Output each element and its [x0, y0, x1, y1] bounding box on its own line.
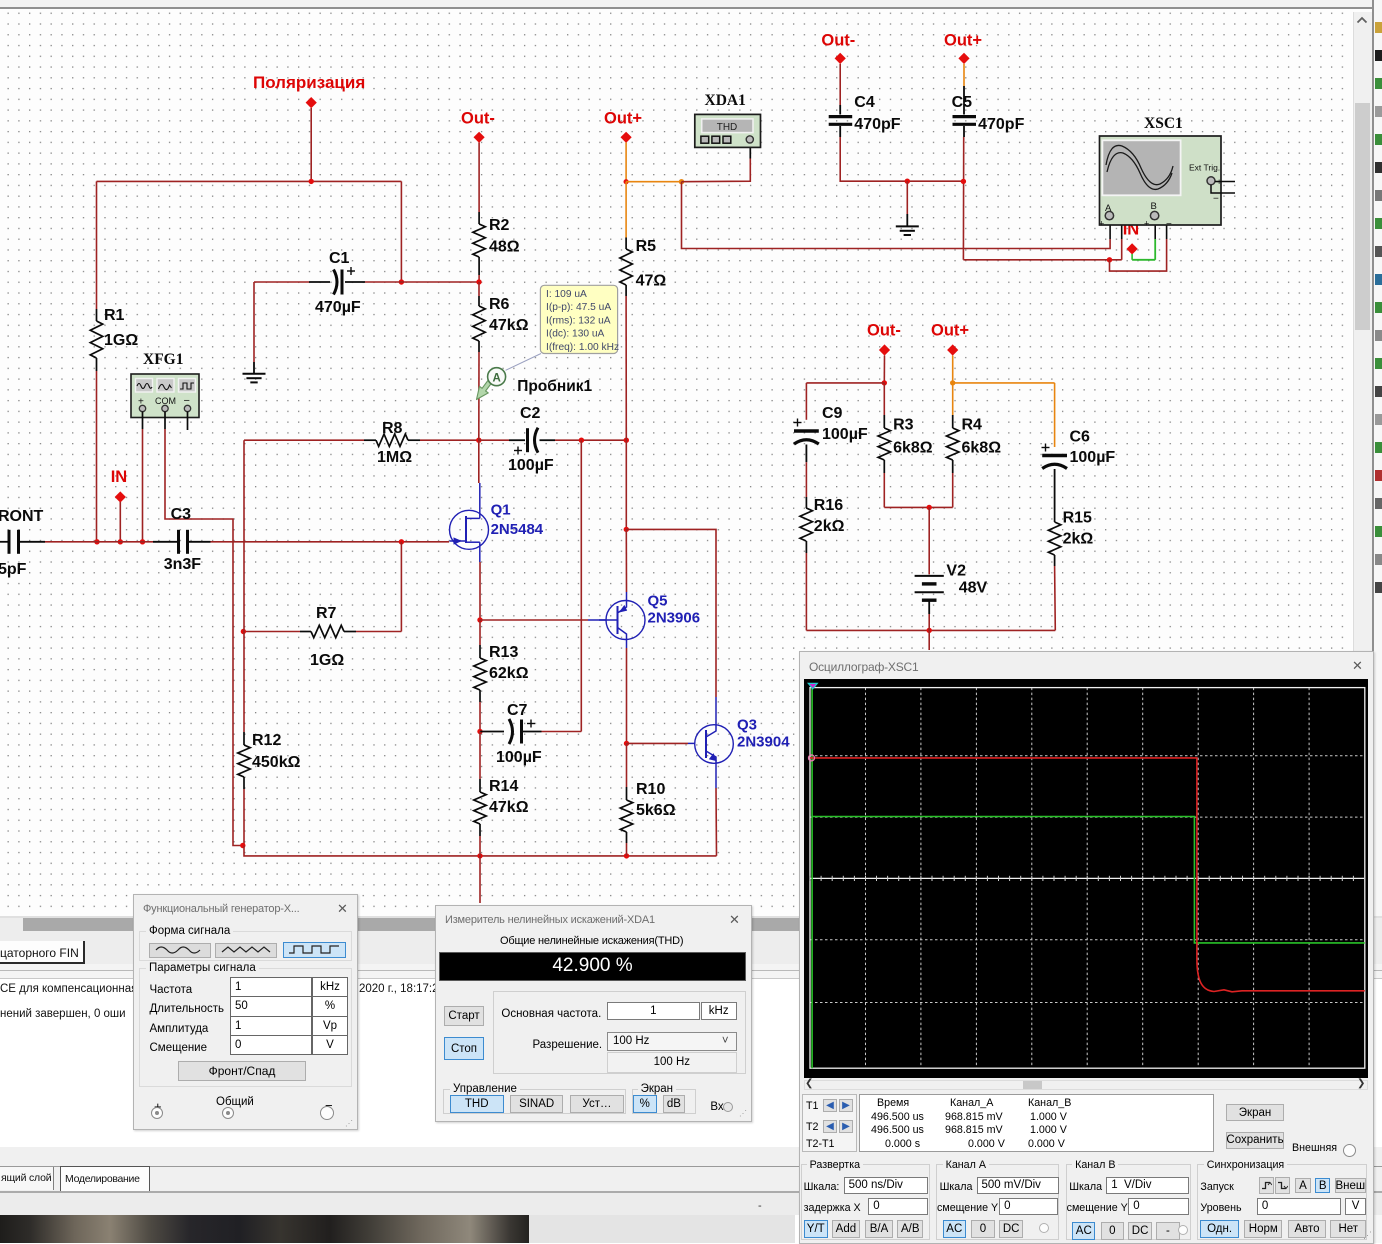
svg-text:470pF: 470pF	[978, 116, 1024, 133]
right icon strip	[1372, 0, 1374, 1243]
svg-text:2N5484: 2N5484	[491, 521, 544, 538]
wire scope B plus green	[1131, 254, 1133, 260]
svg-text:Q5: Q5	[648, 593, 668, 610]
junction	[118, 539, 123, 544]
wire	[310, 108, 312, 181]
transistor Q1	[450, 510, 489, 549]
junction	[140, 539, 145, 544]
junction	[477, 729, 482, 734]
svg-text:5k6Ω: 5k6Ω	[636, 802, 676, 819]
svg-text:R1: R1	[104, 307, 125, 324]
svg-text:2kΩ: 2kΩ	[1063, 531, 1094, 548]
wire	[928, 614, 930, 630]
junction	[961, 179, 966, 184]
svg-text:R12: R12	[252, 732, 281, 749]
capacitor C4	[839, 64, 841, 105]
svg-text:B: B	[1151, 201, 1157, 212]
svg-text:R4: R4	[962, 417, 983, 434]
junction	[927, 628, 932, 633]
wire	[625, 529, 627, 592]
svg-text:R7: R7	[316, 605, 337, 622]
connector diamond IN	[115, 491, 126, 502]
connector diamond IN scope	[1127, 243, 1138, 254]
svg-text:C2: C2	[520, 405, 541, 422]
svg-text:C1: C1	[329, 250, 350, 267]
probe tooltip	[506, 354, 541, 371]
resistor R7	[241, 629, 246, 634]
svg-text:+: +	[1144, 219, 1149, 229]
Синхронизация group	[1197, 1164, 1367, 1240]
connector diamond Out- top	[835, 53, 846, 64]
wire to Q3 collector	[626, 529, 716, 697]
resistor R6	[478, 282, 480, 296]
svg-text:R2: R2	[489, 217, 510, 234]
svg-text:Out+: Out+	[931, 322, 969, 340]
connector diamond Out+ mid	[621, 132, 632, 143]
wire Q1 source	[479, 549, 481, 562]
svg-text:I(freq): 1.00 kHz: I(freq): 1.00 kHz	[546, 342, 619, 353]
svg-text:R8: R8	[382, 420, 403, 437]
junction	[624, 438, 629, 443]
svg-text:I(rms): 132 uA: I(rms): 132 uA	[546, 315, 611, 326]
wire	[883, 356, 885, 383]
battery V2	[915, 575, 944, 577]
wire R3 R4 join	[884, 506, 952, 508]
svg-text:Out+: Out+	[604, 110, 642, 128]
svg-text:Поляризация: Поляризация	[253, 73, 365, 92]
resistor R10	[626, 743, 628, 787]
svg-text:C7: C7	[507, 702, 528, 719]
svg-text:470pF: 470pF	[854, 116, 900, 133]
svg-text:COM: COM	[155, 396, 176, 406]
svg-text:XDA1: XDA1	[705, 92, 746, 109]
resistor R8	[364, 439, 376, 441]
wire main line to Q1 gate	[211, 541, 450, 543]
svg-text:1GΩ: 1GΩ	[310, 652, 344, 669]
wire bottom rail	[244, 846, 717, 856]
svg-text:1GΩ: 1GΩ	[104, 332, 138, 349]
resistor R14	[479, 732, 481, 780]
resistor R4	[952, 383, 954, 415]
resistor R16	[805, 497, 807, 508]
spreadsheet view panel	[0, 916, 1382, 1147]
wire to window	[479, 856, 481, 903]
svg-text:C3: C3	[171, 506, 192, 523]
wire	[97, 180, 402, 182]
capacitor C7	[480, 731, 504, 733]
wire orange	[625, 143, 627, 182]
connector diamond Out- mid	[474, 132, 485, 143]
connector diamond Поляризация	[306, 97, 317, 108]
svg-text:47Ω: 47Ω	[636, 273, 667, 290]
svg-text:2N3904: 2N3904	[737, 734, 790, 751]
svg-text:6k8Ω: 6k8Ω	[893, 440, 933, 457]
junction	[624, 853, 629, 858]
resistor R2	[478, 143, 480, 213]
wire Q5 base	[480, 619, 588, 621]
green trace channel B	[812, 688, 1365, 1069]
svg-text:R16: R16	[814, 497, 843, 514]
ground right	[896, 225, 919, 227]
svg-text:2N3906: 2N3906	[648, 610, 701, 627]
wire	[400, 181, 402, 282]
junction	[309, 179, 314, 184]
resistor R1	[96, 181, 98, 309]
wire	[806, 382, 884, 384]
current probe Пробник1	[477, 375, 496, 400]
wire	[253, 362, 255, 374]
wire scope B minus	[1110, 239, 1167, 271]
Канал A group	[936, 1164, 1059, 1240]
svg-text:48Ω: 48Ω	[489, 239, 520, 256]
junction	[477, 617, 482, 622]
connector diamond Out+ right	[947, 344, 958, 355]
svg-text:C4: C4	[854, 94, 875, 111]
red trace channel A	[810, 758, 1365, 992]
svg-text:I(p-p): 47.5 uA: I(p-p): 47.5 uA	[546, 302, 611, 313]
svg-text:−: −	[1166, 219, 1172, 230]
svg-text:100µF: 100µF	[496, 749, 542, 766]
junction	[94, 539, 99, 544]
svg-text:470µF: 470µF	[315, 299, 361, 316]
capacitor C2	[479, 439, 509, 441]
bottom tab bar	[0, 1147, 1382, 1166]
capacitor C5	[963, 64, 965, 86]
svg-text:XFG1: XFG1	[143, 351, 183, 368]
svg-text:IN: IN	[111, 468, 128, 486]
junction orange	[950, 380, 955, 385]
wire XFG1 minus stub	[187, 412, 189, 431]
transistor Q3	[695, 725, 734, 764]
cursor readout	[802, 1094, 857, 1152]
Function generator window	[133, 894, 358, 1130]
capacitor C6	[1054, 383, 1056, 447]
wire orange to right	[626, 181, 681, 183]
wire XFG1 plus	[142, 412, 144, 430]
wire to scope window	[928, 630, 930, 650]
ground	[243, 373, 266, 375]
svg-text:−: −	[1213, 194, 1219, 205]
THD meter window	[435, 905, 752, 1122]
wire right bottom rail	[806, 629, 1055, 631]
svg-text:R13: R13	[489, 644, 518, 661]
svg-text:47kΩ: 47kΩ	[489, 317, 529, 334]
svg-text:R14: R14	[489, 778, 518, 795]
svg-text:100µF: 100µF	[508, 457, 554, 474]
wire	[253, 282, 255, 362]
svg-text:Out-: Out-	[867, 322, 901, 340]
svg-text:Out-: Out-	[821, 32, 855, 50]
junction	[1107, 257, 1112, 262]
junction	[240, 843, 245, 848]
svg-text:RONT: RONT	[0, 508, 44, 525]
resistor R13	[479, 620, 481, 645]
svg-text:1MΩ: 1MΩ	[377, 449, 412, 466]
svg-text:THD: THD	[717, 122, 738, 133]
junction orange	[624, 179, 629, 184]
wire orange	[953, 382, 1055, 384]
svg-text:Out+: Out+	[944, 32, 982, 50]
connector diamond Out+ top	[958, 53, 969, 64]
desktop photo strip	[0, 1215, 529, 1243]
svg-text:C5: C5	[952, 94, 973, 111]
Развертка group	[801, 1164, 930, 1240]
svg-text:I: 109 uA: I: 109 uA	[546, 289, 587, 300]
junction	[624, 741, 629, 746]
svg-text:C9: C9	[822, 405, 843, 422]
wire XFG1 COM	[164, 412, 166, 430]
junction	[399, 279, 404, 284]
svg-text:R5: R5	[636, 238, 657, 255]
junction	[927, 505, 932, 510]
capacitor C3	[153, 541, 177, 543]
wire scope A plus	[682, 182, 1111, 249]
wire Q5 collector	[626, 640, 628, 649]
wire orange	[952, 356, 954, 383]
capacitor C1	[254, 281, 309, 283]
svg-text:100µF: 100µF	[1070, 449, 1116, 466]
svg-text:62kΩ: 62kΩ	[489, 665, 529, 682]
wire C7 up	[580, 440, 582, 731]
resistor R3	[883, 383, 885, 415]
wire scope A minus	[963, 259, 1121, 261]
svg-text:R3: R3	[893, 417, 914, 434]
junction	[882, 380, 887, 385]
junction	[399, 539, 404, 544]
svg-text:3n3F: 3n3F	[164, 556, 202, 573]
svg-text:R6: R6	[489, 296, 510, 313]
svg-text:100µF: 100µF	[822, 426, 868, 443]
wire Q3 base	[627, 742, 689, 744]
Oscilloscope window	[799, 651, 1374, 1244]
svg-text:Пробник1: Пробник1	[517, 378, 592, 395]
svg-text:I(dc): 130 uA: I(dc): 130 uA	[546, 329, 605, 340]
wire Q1 drain	[478, 440, 480, 483]
junction	[905, 179, 910, 184]
canvas background	[0, 12, 1353, 917]
transistor Q5	[606, 601, 645, 640]
svg-text:C6: C6	[1070, 429, 1091, 446]
wire	[625, 440, 627, 529]
svg-text:R15: R15	[1063, 510, 1092, 527]
junction	[477, 853, 482, 858]
wire R8 line	[243, 440, 245, 631]
svg-text:48V: 48V	[959, 580, 988, 597]
wire Q5 emitter stub	[626, 592, 628, 601]
svg-text:5pF: 5pF	[0, 561, 27, 578]
svg-text:XSC1: XSC1	[1144, 115, 1183, 132]
resistor R12	[243, 632, 245, 733]
wire Q3 collector stub	[715, 697, 717, 725]
junction orange2	[679, 179, 684, 184]
svg-text:Ext Trig.: Ext Trig.	[1189, 163, 1220, 173]
wire XDA1	[682, 159, 751, 182]
screen scrollbar	[804, 1080, 1368, 1091]
svg-text:A: A	[492, 373, 500, 385]
capacitor FRONT 75pF	[0, 541, 8, 543]
junction	[624, 527, 629, 532]
wire main line	[45, 541, 153, 543]
svg-text:6k8Ω: 6k8Ω	[962, 440, 1002, 457]
svg-text:47kΩ: 47kΩ	[489, 799, 529, 816]
connector diamond Out- right	[879, 344, 890, 355]
ground wire	[906, 181, 908, 214]
top toolbar edge	[0, 0, 1382, 7]
svg-text:450kΩ: 450kΩ	[252, 754, 301, 771]
svg-text:Out-: Out-	[461, 110, 495, 128]
svg-text:2kΩ: 2kΩ	[814, 518, 845, 535]
svg-text:Q1: Q1	[491, 502, 511, 519]
junction	[579, 438, 584, 443]
junction	[476, 279, 481, 284]
svg-text:R10: R10	[636, 781, 665, 798]
wire to V2	[928, 507, 930, 574]
svg-text:+: +	[1099, 219, 1104, 229]
junction	[476, 438, 481, 443]
wire	[119, 502, 121, 542]
svg-text:V2: V2	[946, 563, 966, 580]
capacitor C9	[805, 383, 807, 420]
Канал B group	[1066, 1164, 1191, 1240]
right scrollbar	[1353, 12, 1373, 916]
svg-text:Q3: Q3	[737, 717, 757, 734]
resistor R15	[1048, 522, 1060, 555]
resistor R5	[625, 182, 627, 238]
wire Q3 emitter	[715, 763, 717, 788]
